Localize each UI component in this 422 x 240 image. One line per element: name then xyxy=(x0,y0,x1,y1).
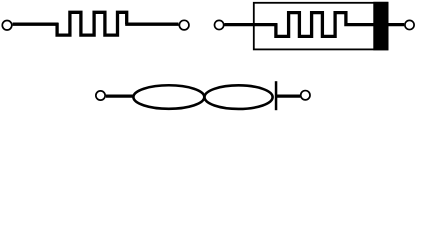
wire (right lead of L1) xyxy=(276,94,300,97)
terminal node (right of resistor R1) xyxy=(179,20,189,30)
wire (right lead of M1) xyxy=(388,23,404,26)
inductor L1 coil loop 2 (ellipse) xyxy=(205,85,273,109)
memristor M1 square-wave meander body xyxy=(276,13,375,37)
wire (left lead of M1) xyxy=(224,23,277,26)
wire (left lead of L1) xyxy=(106,94,134,97)
inductor L1 end bar (vertical tick) xyxy=(275,81,278,110)
terminal node (left of memristor M1) xyxy=(215,20,224,29)
terminal node (left of resistor R1) xyxy=(2,21,12,31)
wire (left lead of R1) xyxy=(13,23,59,26)
memristor M1 polarity bar (filled end) xyxy=(373,2,388,51)
terminal node (left of inductor L1) xyxy=(96,91,105,100)
resistor R1 (square-wave meander body) xyxy=(57,12,127,35)
memristor M1 box outline xyxy=(254,3,388,50)
wire (right lead of R1) xyxy=(125,23,178,26)
terminal node (right of inductor L1) xyxy=(301,91,310,100)
inductor L1 coil loop 1 (ellipse) xyxy=(133,85,204,109)
terminal node (right of memristor M1) xyxy=(405,20,414,29)
